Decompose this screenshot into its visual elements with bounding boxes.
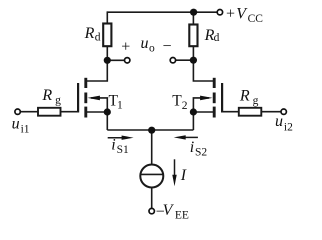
svg-text:u: u [275, 113, 283, 130]
wire T1 source to bus [106, 112, 108, 130]
svg-text:i: i [190, 139, 194, 156]
wire T2 source line [193, 111, 214, 113]
arrow iS2 line [183, 136, 198, 138]
svg-text:R: R [239, 88, 250, 105]
svg-text:o: o [149, 43, 155, 55]
svg-text:i: i [111, 137, 115, 154]
resistor Rd left [103, 24, 111, 47]
transistor T1 channel middle dash [84, 93, 87, 104]
terminal -VEE [149, 208, 154, 213]
svg-text:+: + [121, 38, 130, 55]
svg-text:u: u [141, 35, 149, 52]
resistor Rg right [239, 108, 261, 116]
svg-text:i2: i2 [284, 122, 293, 134]
arrowhead T2 body [200, 96, 212, 101]
node T2 source junction [190, 108, 197, 115]
wire source bus [107, 129, 193, 131]
svg-text:g: g [55, 94, 61, 106]
wire T1 gate lead [61, 111, 79, 113]
svg-text:+: + [226, 6, 235, 23]
svg-text:2: 2 [182, 100, 188, 112]
wire T2 gate lead [222, 111, 239, 113]
node right drain junction [190, 57, 197, 64]
arrow iS1 line [108, 137, 125, 139]
svg-text:T: T [172, 93, 182, 110]
arrow I line [174, 159, 176, 177]
arrowhead T1 body [88, 96, 100, 101]
wire top rail [107, 11, 217, 13]
terminal output + [125, 58, 130, 63]
transistor T2 channel middle dash [213, 93, 216, 104]
node T1 source junction [104, 108, 111, 115]
svg-text:−: − [163, 38, 172, 55]
transistor T1 channel top dash [84, 78, 87, 88]
svg-text:CC: CC [248, 13, 264, 25]
current source bar [140, 173, 163, 175]
svg-text:d: d [95, 32, 101, 44]
wire right rail drop to Rd [192, 12, 194, 24]
terminal +VCC [217, 10, 222, 15]
arrowhead I [172, 175, 176, 187]
svg-text:S1: S1 [117, 144, 129, 156]
svg-text:i1: i1 [21, 123, 30, 135]
wire left input lead [20, 111, 38, 113]
node top rail junction [190, 9, 197, 16]
arrowhead iS1 [122, 136, 134, 140]
wire left rail drop to Rd [106, 11, 108, 23]
current source I circle [140, 165, 163, 188]
svg-text:d: d [214, 32, 220, 44]
svg-text:EE: EE [175, 210, 189, 222]
svg-text:R: R [84, 25, 95, 42]
svg-text:I: I [180, 167, 187, 184]
transistor T2 channel bottom dash [213, 107, 216, 118]
svg-text:u: u [12, 116, 20, 133]
arrowhead iS2 [174, 135, 186, 139]
wire T2 source to bus [192, 112, 194, 130]
node bus center junction [148, 127, 155, 134]
svg-text:g: g [253, 95, 259, 107]
wire T2 body to source corner [193, 98, 209, 112]
transistor T2 gate line [221, 83, 223, 113]
wire left Rd to drain node and T1 drain [86, 46, 108, 81]
terminal input left [15, 109, 20, 114]
wire bus to current source [151, 130, 153, 165]
svg-text:S2: S2 [195, 146, 207, 158]
wire T1 source line [86, 111, 108, 113]
wire right input lead [261, 111, 281, 113]
terminal input right [281, 109, 286, 114]
wire right Rd to drain node and T2 drain [193, 46, 214, 81]
transistor Q T1 gate line [77, 83, 79, 113]
transistor T1 channel bottom dash [84, 107, 87, 118]
svg-text:R: R [41, 87, 52, 104]
svg-text:1: 1 [117, 100, 123, 112]
wire right output stub [176, 59, 194, 61]
resistor Rd right [189, 25, 197, 47]
wire current source to VEE terminal [151, 188, 153, 209]
transistor T2 channel top dash [213, 78, 216, 88]
node left drain junction [104, 57, 111, 64]
wire left output stub [107, 59, 124, 61]
terminal output - [170, 58, 175, 63]
wire T1 body to source corner [91, 98, 107, 112]
resistor Rg left [38, 108, 61, 116]
